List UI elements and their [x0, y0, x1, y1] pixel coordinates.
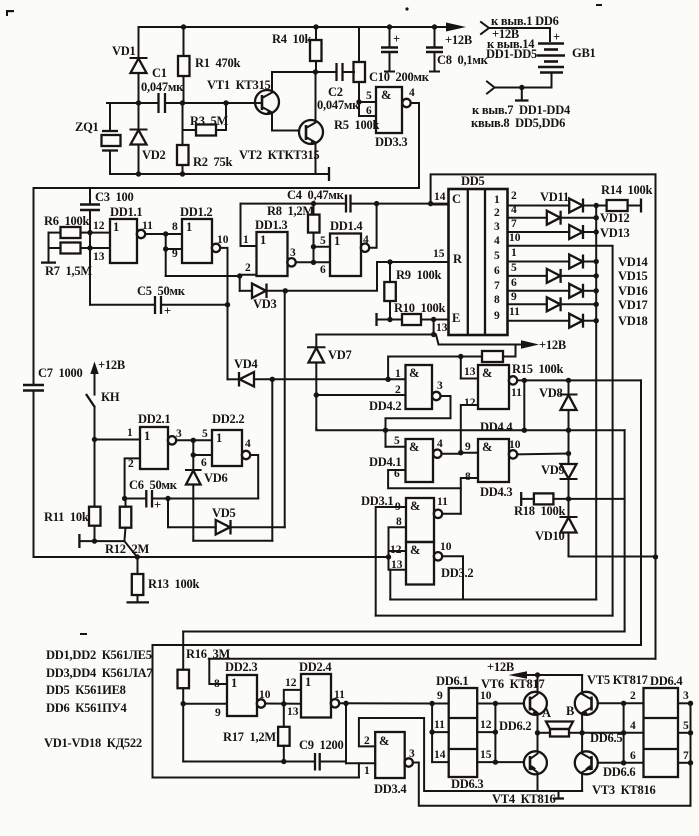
svg-text:4: 4: [494, 235, 500, 247]
svg-text:C10 200мк: C10 200мк: [369, 70, 430, 84]
svg-text:VT1 КТ315: VT1 КТ315: [207, 78, 271, 92]
gate DD3.1: [361, 494, 448, 542]
svg-text:&: &: [482, 440, 492, 454]
diode VD14: [569, 255, 648, 270]
resistor R15 100k: [460, 345, 564, 377]
svg-text:DD5 К561ИЕ8: DD5 К561ИЕ8: [46, 683, 126, 697]
svg-text:DD6.5: DD6.5: [590, 731, 622, 745]
svg-text:11: 11: [437, 496, 448, 508]
svg-text:3: 3: [683, 690, 689, 702]
svg-text:1: 1: [127, 427, 133, 439]
svg-text:2: 2: [364, 735, 370, 747]
svg-text:DD3.3: DD3.3: [375, 135, 407, 149]
node C3-pin12: [87, 230, 92, 235]
svg-text:7: 7: [494, 280, 500, 292]
svg-text:4: 4: [245, 438, 251, 450]
resistor R16 3M: [178, 632, 231, 704]
svg-text:13: 13: [464, 366, 476, 378]
scan speck top-middle: [405, 7, 408, 10]
wire VD6net riser to VD4 wire: [271, 379, 273, 540]
node VD4-pin1riser: [385, 377, 390, 382]
node R17-C9 wire: [281, 759, 286, 764]
ground tick emitters: [553, 791, 564, 799]
wire pin1 DD3.4: [346, 763, 375, 777]
resistor R9 100k: [384, 262, 441, 320]
svg-text:9: 9: [511, 291, 517, 303]
gate DD4.4: [464, 365, 522, 434]
svg-text:&: &: [381, 88, 391, 102]
svg-text:R1 470k: R1 470k: [195, 56, 241, 70]
svg-text:B: B: [566, 704, 574, 718]
svg-text:VT5 КТ817: VT5 КТ817: [587, 673, 648, 687]
gate DD3.3: [375, 87, 415, 149]
resistor R18 100k: [514, 492, 569, 518]
wire VD common vertical down: [595, 204, 597, 599]
IC DD5: [449, 174, 508, 335]
svg-text:C4 0,47мк: C4 0,47мк: [287, 188, 345, 202]
wire H2: [376, 615, 613, 617]
node DD6 input bus: [429, 701, 434, 706]
diode VD4: [228, 357, 389, 387]
wire H1: [390, 599, 596, 601]
svg-text:12: 12: [464, 397, 476, 409]
wire R17 top lead: [284, 704, 299, 727]
capacitor C3 100: [80, 188, 134, 233]
svg-text:DD3.4: DD3.4: [374, 782, 407, 796]
wire DD1.3 out to pin6: [296, 247, 330, 276]
capacitor C6 50mk: [125, 478, 259, 512]
wire frame top (DD3.3 out to C3): [34, 187, 420, 189]
scan speck top-right: [596, 4, 602, 6]
wire pin2 DD6.4: [624, 690, 644, 703]
node bottom-VD2: [136, 171, 141, 176]
svg-text:VD18: VD18: [618, 314, 648, 328]
svg-text:DD2.1: DD2.1: [138, 412, 170, 426]
svg-text:1: 1: [334, 234, 340, 248]
svg-text:2: 2: [511, 190, 517, 202]
wire pin5 DD6.4: [678, 720, 693, 736]
svg-text:4: 4: [409, 87, 415, 99]
node rail-R4: [313, 24, 318, 29]
svg-text:6: 6: [494, 265, 500, 277]
svg-text:10: 10: [480, 690, 492, 702]
wire DD2.4 out: [339, 701, 432, 706]
svg-text:DD6.4: DD6.4: [650, 674, 683, 688]
wire pin1 DD2.1: [95, 427, 141, 440]
node R12-frame: [135, 554, 140, 559]
svg-text:R16 3M: R16 3M: [186, 647, 231, 661]
svg-text:C3 100: C3 100: [95, 190, 134, 204]
svg-text:R7 1,5M: R7 1,5M: [45, 264, 92, 278]
node battery common tick: [515, 85, 529, 101]
svg-text:10: 10: [217, 234, 229, 246]
svg-text:1: 1: [395, 368, 401, 380]
svg-text:8: 8: [494, 294, 500, 306]
resistor R5 100k: [334, 27, 380, 132]
node A-R1R2: [180, 100, 185, 105]
wire VD10 bottom to right rail: [569, 547, 656, 557]
wire frame bottom (common): [34, 556, 389, 558]
node VD4-VD6riser: [270, 377, 275, 382]
svg-text:квыв.8 DD5,DD6: квыв.8 DD5,DD6: [471, 116, 565, 130]
scan speck bottom-left arrow: [80, 633, 87, 635]
svg-text:C2: C2: [328, 85, 343, 99]
resistor R7 1.5M: [45, 243, 92, 279]
DD5 output row2 pin4: [494, 204, 547, 219]
svg-text:R8 1,2M: R8 1,2M: [267, 204, 314, 218]
svg-text:1: 1: [511, 247, 517, 259]
svg-text:DD6.2: DD6.2: [499, 719, 531, 733]
connector arrow +12B supply: [481, 14, 559, 61]
wire pin9 DD3.1 riser to H2: [376, 507, 406, 616]
wire VT1 collector to R4 node: [272, 71, 316, 73]
diode VD16: [569, 284, 647, 298]
svg-text:VD15: VD15: [618, 269, 648, 283]
wire R18 node to V3 rail: [569, 498, 625, 500]
node C4rail-DD5riser: [428, 201, 433, 206]
wire pin14 DD6.3: [432, 749, 449, 762]
svg-text:3: 3: [290, 247, 296, 259]
wire DD1.1out to DD1.3 pin2: [166, 275, 240, 277]
svg-text:VD11: VD11: [540, 190, 569, 204]
svg-text:6: 6: [320, 264, 326, 276]
svg-text:VD8: VD8: [539, 386, 563, 400]
buffer block DD6.1-6.3: [436, 674, 531, 791]
svg-text:9: 9: [437, 690, 443, 702]
svg-text:DD6 К561ПУ4: DD6 К561ПУ4: [46, 701, 128, 715]
resistor R17 1.2M: [223, 727, 290, 762]
svg-text:8: 8: [214, 678, 220, 690]
svg-text:3: 3: [437, 380, 443, 392]
svg-text:11: 11: [509, 306, 520, 318]
svg-text:VD2: VD2: [142, 148, 166, 162]
wire DD1.1 out to DD1.2: [145, 233, 182, 235]
svg-text:R9 100k: R9 100k: [396, 268, 442, 282]
wire V3 rail: [624, 430, 626, 631]
svg-text:1: 1: [243, 234, 249, 246]
svg-text:VD6: VD6: [204, 471, 228, 485]
wire VD6 bottom link: [193, 540, 272, 542]
wire left frame vertical lower: [33, 391, 35, 558]
wire DD3.2 out riser to H1: [442, 556, 463, 599]
gate DD1.2: [180, 205, 229, 263]
wire pin5 DD1.4: [311, 235, 330, 249]
svg-text:VD9: VD9: [541, 463, 565, 477]
svg-text:VD14: VD14: [618, 255, 649, 269]
capacitor C7 1000: [23, 366, 83, 391]
resistor R12 2M: [105, 499, 150, 557]
text battery pin notes: [471, 103, 571, 130]
svg-text:C8 0,1мк: C8 0,1мк: [437, 53, 489, 67]
node VD3-VD5riser: [283, 288, 288, 293]
svg-text:DD1.4: DD1.4: [330, 219, 363, 233]
svg-text:DD4.1: DD4.1: [369, 455, 401, 469]
crystal ZQ1: [75, 103, 121, 174]
svg-text:0,047мк: 0,047мк: [141, 80, 184, 94]
node speaker left: [535, 730, 540, 735]
wire H1 left riser to pin13 net: [389, 570, 391, 600]
svg-text:13: 13: [287, 706, 299, 718]
svg-text:13: 13: [436, 322, 448, 334]
wire DD1.4 out riser to C4 rail: [369, 201, 379, 248]
ground R6R7: [41, 233, 56, 263]
svg-text:R5 100k: R5 100k: [334, 118, 380, 132]
wire DD4.3 out: [517, 453, 568, 456]
capacitor C4 0.47mk: [287, 188, 351, 213]
resistor R11 10k: [44, 440, 101, 542]
wire VT3 base to pin6: [598, 760, 636, 779]
svg-text:VD5: VD5: [212, 506, 236, 520]
wire DD2.3 out: [265, 701, 301, 706]
resistor R4 10k: [272, 27, 322, 72]
resistor R14 100k: [596, 183, 652, 213]
diode VD6: [186, 455, 228, 541]
svg-text:R4 10k: R4 10k: [272, 32, 312, 46]
svg-text:9: 9: [172, 248, 178, 260]
svg-text:8: 8: [172, 221, 178, 233]
svg-text:DD1.1: DD1.1: [110, 205, 142, 219]
wire H4: [153, 644, 642, 646]
svg-text:DD1-DD5: DD1-DD5: [486, 47, 537, 61]
diode VD7: [308, 335, 352, 428]
svg-text:R11 10k: R11 10k: [44, 510, 89, 524]
resistor R8 1.2M: [267, 204, 320, 247]
wire VT5 base to pin2: [598, 701, 627, 706]
diode VD5: [168, 506, 285, 535]
svg-text:+: +: [154, 498, 161, 512]
diode VD8: [539, 378, 577, 431]
svg-text:DD1.2: DD1.2: [180, 205, 212, 219]
node frame-right rail: [653, 554, 658, 559]
svg-text:VD16: VD16: [618, 284, 648, 298]
svg-text:5: 5: [202, 428, 208, 440]
svg-text:1: 1: [494, 194, 500, 206]
svg-text:&: &: [409, 440, 419, 454]
wire VD3 net to pin15 riser: [285, 262, 377, 291]
diode VD3: [240, 284, 286, 312]
svg-text:DD1,DD2 К561ЛЕ5: DD1,DD2 К561ЛЕ5: [46, 648, 152, 662]
wire pin2 jog DD1.3: [237, 262, 257, 291]
svg-text:&: &: [409, 366, 419, 380]
wire base bus vertical: [494, 704, 496, 763]
wire pin2/4/6 bus: [623, 703, 625, 763]
svg-text:R2 75k: R2 75k: [193, 155, 233, 169]
gate DD4.2: [369, 365, 443, 413]
wire pin13: [90, 248, 110, 263]
type list text: [44, 648, 152, 750]
svg-text:ZQ1: ZQ1: [75, 120, 99, 134]
svg-text:15: 15: [480, 749, 492, 761]
svg-text:6: 6: [366, 105, 372, 117]
svg-text:DD3,DD4 К561ЛА7: DD3,DD4 К561ЛА7: [46, 666, 152, 680]
wire VT6 base: [495, 703, 524, 705]
wire DD4.4 out: [517, 378, 641, 383]
svg-text:VD3: VD3: [253, 297, 277, 311]
svg-text:R: R: [453, 252, 463, 266]
node A-VD2: [136, 100, 141, 105]
svg-text:VD4: VD4: [234, 357, 259, 371]
svg-text:11: 11: [334, 689, 345, 701]
svg-text:DD5: DD5: [461, 174, 485, 188]
svg-text:1: 1: [231, 676, 237, 690]
node K11-pin1-R11: [92, 437, 97, 442]
buffer block DD6.4-6.6: [644, 674, 684, 777]
svg-text:&: &: [379, 734, 389, 748]
diode VD15: [547, 269, 648, 283]
svg-text:DD3.2: DD3.2: [441, 566, 473, 580]
svg-text:12: 12: [480, 719, 492, 731]
svg-text:R3 5M: R3 5M: [190, 114, 229, 128]
node C4-R8: [311, 201, 316, 206]
wire H3: [183, 631, 624, 633]
svg-text:R14 100k: R14 100k: [601, 183, 653, 197]
svg-text:2: 2: [494, 207, 500, 219]
svg-text:10: 10: [440, 541, 452, 553]
svg-text:9: 9: [465, 441, 471, 453]
svg-text:GB1: GB1: [572, 46, 596, 60]
svg-text:C5 50мк: C5 50мк: [137, 284, 186, 298]
wire DD4.2 out jog down-left: [383, 396, 451, 447]
wire pin12: [477, 719, 498, 735]
wire VT4 base: [495, 761, 524, 763]
node rail-C8: [432, 24, 437, 29]
svg-text:+12В: +12В: [539, 338, 566, 352]
svg-text:C9 1200: C9 1200: [299, 738, 344, 752]
ground tick VT2 emitter: [316, 167, 329, 181]
resistor R13 100k: [127, 557, 200, 602]
wire pin1 riser to R15 rail: [388, 357, 460, 380]
wire pin7 DD6.4: [678, 750, 693, 766]
node C6 right VD5 riser: [165, 496, 170, 501]
svg-text:VD13: VD13: [600, 226, 630, 240]
wire pin2 DD2.1 jog: [125, 458, 140, 499]
wire emitter rail: [538, 790, 583, 792]
wire pin6: [359, 105, 376, 117]
svg-text:0,047мк: 0,047мк: [317, 98, 360, 112]
gate DD4.3: [465, 439, 521, 499]
svg-text:1: 1: [305, 675, 311, 689]
svg-text:C1: C1: [152, 66, 167, 80]
wire DD2.2 out down to C6: [250, 455, 258, 499]
diode VD12: [547, 211, 630, 225]
wire VT1 emitter to VT2 base: [272, 130, 299, 132]
wire pin1 DD4.2: [388, 378, 405, 380]
wire DD3.4 out to bottom rail: [413, 763, 691, 806]
svg-text:9: 9: [215, 707, 221, 719]
+12B rail arrowhead: [445, 23, 472, 48]
svg-text:КН: КН: [101, 390, 120, 404]
wire E-rail to +12B arrow: [316, 335, 566, 353]
wire collector rail VT6-VT5: [538, 674, 583, 676]
svg-text:1: 1: [144, 429, 150, 443]
svg-text:3: 3: [409, 748, 415, 760]
svg-text:VD17: VD17: [618, 298, 648, 312]
svg-text:14: 14: [434, 749, 446, 761]
wire DD6 input bus vertical: [429, 704, 434, 763]
svg-text:6: 6: [201, 457, 207, 469]
svg-text:10: 10: [509, 232, 521, 244]
wire out tie to pin12 jog: [284, 677, 301, 704]
node R10-E riser: [431, 317, 436, 322]
capacitor C2: [316, 63, 361, 112]
wire VD7 bottom rail (y430): [316, 429, 624, 431]
wire DD3.1 out to pin8 riser: [442, 513, 461, 515]
node VD9-R18: [566, 496, 571, 501]
svg-text:+12В: +12В: [98, 358, 125, 372]
svg-text:DD4.2: DD4.2: [369, 399, 401, 413]
svg-text:1: 1: [260, 233, 266, 247]
svg-text:R15 100k: R15 100k: [512, 362, 564, 376]
wire pin15: [477, 749, 498, 765]
svg-text:DD4.3: DD4.3: [480, 485, 512, 499]
svg-text:2: 2: [245, 262, 251, 274]
wire pin6 DD4.1 jog: [388, 470, 461, 488]
diode VD2: [131, 103, 166, 174]
wire V4 rail DD4.4out down: [640, 380, 642, 645]
svg-text:VD1: VD1: [112, 44, 136, 58]
svg-text:5: 5: [366, 90, 372, 102]
svg-text:10: 10: [259, 689, 271, 701]
wire pin2 DD4.2: [316, 394, 405, 396]
svg-text:к выв.1 DD6: к выв.1 DD6: [491, 14, 559, 28]
svg-text:+12В: +12В: [487, 660, 514, 674]
svg-text:VT3 КТ816: VT3 КТ816: [592, 783, 656, 797]
wire pin13 DD4.4: [461, 357, 478, 379]
wire pin9 DD6.1: [432, 690, 449, 704]
wire C4 top rail: [241, 203, 449, 205]
wire pin2 DD3.4 bridge: [359, 718, 538, 791]
svg-text:7: 7: [511, 218, 517, 230]
gate DD1.3: [255, 218, 296, 276]
svg-text:VD12: VD12: [600, 211, 630, 225]
diode VD9: [541, 454, 577, 499]
wire riser to top right rail: [431, 174, 656, 203]
svg-text:R17 1,2M: R17 1,2M: [223, 730, 276, 744]
svg-text:13: 13: [93, 251, 105, 263]
transistor VT1 KT315: [207, 73, 279, 131]
wire bottom common: [110, 173, 316, 175]
wire R16 node down to C9 wire: [182, 704, 184, 762]
svg-text:5: 5: [494, 250, 500, 262]
svg-text:VD1-VD18 КД522: VD1-VD18 КД522: [44, 736, 142, 750]
transistor VT6 KT817: [481, 675, 547, 733]
wire right pins rail: [690, 703, 692, 805]
svg-text:4: 4: [511, 204, 517, 216]
DD5 output row9 pin11: [494, 306, 569, 322]
node frame-DD3.2 pins: [386, 554, 391, 559]
svg-text:4: 4: [363, 234, 369, 246]
speaker: [538, 704, 583, 737]
svg-text:VD7: VD7: [328, 348, 352, 362]
wire pin6 DD6.4: [624, 750, 644, 763]
svg-text:2: 2: [128, 458, 134, 470]
svg-text:R6 100k: R6 100k: [44, 214, 90, 228]
capacitor C1: [141, 66, 184, 113]
wire VD5net riser: [284, 291, 286, 527]
wire pin8 DD4.3 riser to DD3.1 out: [461, 478, 478, 514]
wire pin12 DD4.4 jog to pin9 DD4.3: [458, 405, 478, 455]
node VD7-pin2 tap: [314, 392, 319, 397]
diode VD17: [547, 297, 648, 312]
gate DD1.1: [110, 205, 153, 263]
wire V5 right rail: [655, 174, 657, 658]
svg-text:R12 2M: R12 2M: [105, 542, 150, 556]
svg-text:3: 3: [176, 428, 182, 440]
node A-R3: [223, 100, 228, 105]
node rail-C10: [387, 24, 392, 29]
wire VD5 branch riser: [167, 499, 169, 528]
+12B arrow output stage: [487, 660, 540, 679]
